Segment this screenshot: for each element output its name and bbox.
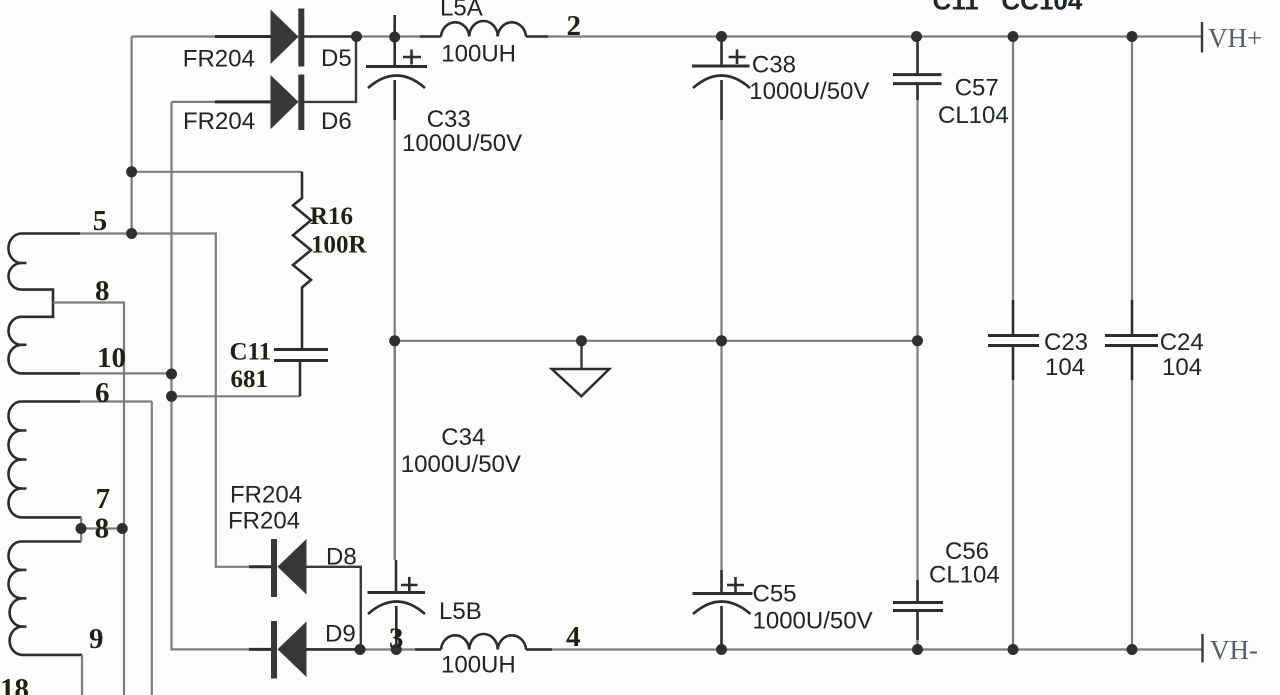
junction dots left side (76, 166, 178, 534)
svg-text:VH-: VH- (1210, 635, 1258, 665)
inductor L5A (420, 21, 548, 37)
svg-text:100R: 100R (311, 232, 368, 259)
svg-text:L5B: L5B (439, 598, 482, 625)
terminal VH+ (1202, 22, 1262, 53)
wire: D5 anode horizontal from left vertical (132, 35, 215, 37)
svg-text:8: 8 (95, 513, 110, 545)
junction dots top rail (351, 31, 1138, 43)
svg-text:D9: D9 (325, 621, 356, 648)
svg-text:FR204: FR204 (183, 108, 255, 135)
svg-text:3: 3 (389, 623, 404, 655)
wire: pin5 horizontal to down-right vertical (80, 234, 249, 567)
diode D9 (249, 621, 360, 679)
wire: pin 8 tap horizontal and long vertical (53, 303, 124, 695)
wire: junction link pin7/pin8 (81, 527, 122, 529)
svg-text:4: 4 (566, 621, 581, 653)
transformer winding T1 upper (pins 5-8-10) (8, 234, 80, 374)
wire: bottom rail from L5B to VH- terminal (526, 648, 1203, 650)
wire: pin 7 elbow to junction (80, 517, 82, 541)
svg-text:1000U/50V: 1000U/50V (402, 130, 522, 157)
svg-text:D6: D6 (321, 108, 352, 135)
wire: C24 vertical (1131, 37, 1133, 650)
wire: mid rail (ground net) (395, 340, 918, 342)
svg-text:1000U/50V: 1000U/50V (753, 608, 873, 635)
svg-text:100UH: 100UH (441, 652, 516, 679)
wire: D6 anode vertical down to D9 cathode (172, 102, 250, 650)
wire: left vertical from D5 anode down to pin 5 (131, 37, 133, 234)
svg-text:104: 104 (1045, 354, 1085, 381)
svg-text:CC104: CC104 (1001, 0, 1082, 16)
svg-text:104: 104 (1162, 354, 1202, 381)
transformer winding T3 (pins 8-9) (8, 542, 82, 655)
capacitor C56 (893, 580, 943, 650)
junction dots bottom rail (355, 644, 1138, 655)
wire: C11 bottom horizontal (172, 395, 301, 397)
svg-text:CL104: CL104 (938, 102, 1009, 129)
svg-text:FR204: FR204 (228, 508, 300, 535)
svg-text:18: 18 (0, 673, 29, 695)
wire: pin 9 down vertical (81, 655, 83, 695)
svg-text:10: 10 (97, 342, 126, 374)
wire: bottom rail from D9 to L5B (360, 648, 441, 650)
svg-text:100UH: 100UH (441, 41, 516, 68)
svg-text:5: 5 (93, 205, 108, 237)
capacitor C23 (988, 300, 1039, 380)
wire: pin 6 down vertical (151, 402, 153, 695)
svg-text:2: 2 (567, 10, 582, 42)
svg-text:7: 7 (96, 483, 111, 515)
wire: top rail VH+ (356, 35, 420, 37)
terminal VH- (1203, 634, 1259, 665)
svg-text:VH+: VH+ (1208, 23, 1262, 53)
wire: C57/C56 vertical (916, 100, 918, 580)
wire: pin 6 horizontal (80, 400, 152, 402)
capacitor C24 (1105, 300, 1158, 380)
svg-text:8: 8 (95, 275, 110, 307)
capacitor C33 (366, 15, 427, 120)
svg-text:C57: C57 (955, 75, 999, 102)
svg-text:1000U/50V: 1000U/50V (749, 78, 869, 105)
svg-text:1000U/50V: 1000U/50V (401, 451, 521, 478)
capacitor C34 (368, 341, 426, 650)
inductor L5B (415, 634, 552, 650)
wire: pin 10 horizontal (80, 372, 172, 374)
svg-text:R16: R16 (310, 203, 353, 230)
svg-text:C11: C11 (230, 339, 272, 366)
svg-text:9: 9 (89, 623, 104, 655)
svg-text:C55: C55 (753, 581, 797, 608)
diode D5 (215, 9, 356, 67)
svg-text:C24: C24 (1160, 329, 1204, 356)
diode D8 (249, 539, 361, 650)
svg-text:C38: C38 (752, 52, 796, 79)
svg-text:681: 681 (231, 366, 269, 393)
svg-text:C11: C11 (933, 0, 979, 16)
svg-text:FR204: FR204 (183, 46, 255, 73)
capacitor C55 (693, 570, 753, 650)
svg-text:D8: D8 (326, 544, 357, 571)
svg-text:C34: C34 (441, 424, 485, 451)
wire: C23 vertical (1012, 37, 1014, 650)
transformer winding T2 (pins 6-7) (8, 402, 81, 518)
svg-text:FR204: FR204 (230, 482, 302, 509)
wire: C33/C34 vertical (394, 120, 396, 560)
ground (552, 341, 610, 397)
wire: R16 tap horizontal (132, 171, 302, 173)
svg-text:6: 6 (95, 377, 110, 409)
svg-text:CL104: CL104 (929, 562, 1000, 589)
svg-text:C23: C23 (1044, 329, 1088, 356)
capacitor C57 (893, 37, 942, 101)
wire: top rail from L5A to VH+ terminal (548, 35, 1202, 37)
capacitor C11 (274, 350, 328, 397)
junction dots mid rail (389, 335, 923, 346)
resistor R16 (293, 172, 311, 349)
capacitor C38 (692, 37, 750, 121)
wire: C38/C55 vertical (720, 120, 722, 570)
svg-text:L5A: L5A (440, 0, 483, 22)
svg-text:C33: C33 (427, 106, 471, 133)
svg-text:D5: D5 (321, 45, 352, 72)
diode D6 (215, 37, 356, 131)
